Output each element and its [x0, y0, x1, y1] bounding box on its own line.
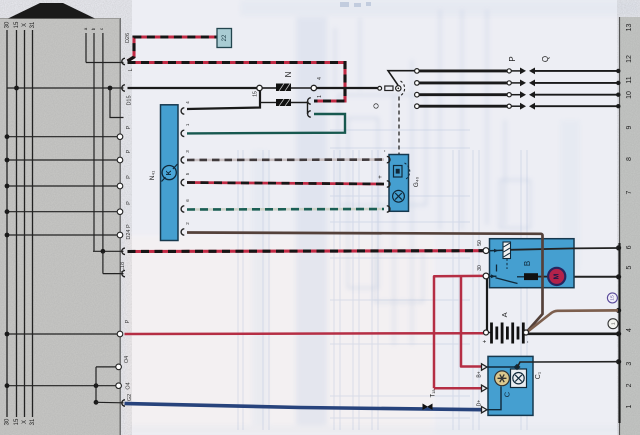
svg-text:2: 2	[626, 383, 633, 387]
svg-text:15: 15	[14, 418, 20, 425]
svg-text:1: 1	[317, 95, 323, 98]
svg-text:D15: D15	[126, 95, 132, 105]
svg-text:6: 6	[626, 245, 633, 249]
svg-text:N: N	[284, 71, 293, 77]
svg-text:M: M	[554, 274, 561, 280]
svg-text:L: L	[128, 68, 134, 71]
svg-text:30: 30	[5, 21, 11, 28]
svg-text:-: -	[526, 341, 532, 343]
svg-text:15: 15	[610, 295, 616, 301]
svg-text:O: O	[371, 103, 380, 109]
svg-text:22: 22	[222, 34, 228, 41]
svg-text:C: C	[502, 391, 511, 397]
svg-text:-: -	[383, 150, 389, 152]
svg-text:4: 4	[317, 77, 323, 80]
svg-text:31: 31	[30, 21, 36, 28]
svg-text:X: X	[22, 420, 28, 424]
svg-text:1: 1	[610, 322, 616, 325]
svg-text:X: X	[22, 23, 28, 27]
svg-text:Q: Q	[541, 56, 550, 62]
svg-text:3: 3	[626, 362, 633, 366]
svg-text:5: 5	[626, 266, 633, 270]
svg-text:P: P	[126, 149, 132, 153]
svg-text:31: 31	[30, 418, 36, 425]
svg-text:+: +	[378, 175, 384, 179]
svg-text:C18: C18	[120, 262, 126, 272]
svg-text:D24 P: D24 P	[126, 224, 132, 240]
svg-text:P: P	[126, 125, 132, 129]
svg-text:G2: G2	[127, 394, 133, 401]
svg-text:O4: O4	[125, 382, 131, 389]
svg-text:D+: D+	[476, 400, 482, 407]
svg-text:T₁ₐ: T₁ₐ	[431, 389, 437, 398]
svg-text:1: 1	[626, 404, 633, 408]
svg-text:A: A	[500, 312, 509, 317]
svg-text:O4: O4	[124, 356, 130, 363]
svg-text:12: 12	[626, 55, 633, 63]
svg-text:7: 7	[626, 190, 633, 194]
svg-text:15: 15	[252, 91, 258, 97]
svg-text:K: K	[166, 170, 173, 175]
svg-text:11: 11	[626, 76, 633, 83]
svg-text:C₁: C₁	[535, 371, 542, 379]
svg-text:15: 15	[14, 21, 20, 28]
svg-text:30: 30	[5, 418, 11, 425]
svg-text:9: 9	[626, 125, 633, 129]
svg-text:30: 30	[477, 265, 483, 271]
svg-text:N₄₁: N₄₁	[149, 170, 156, 180]
svg-text:8: 8	[626, 157, 633, 161]
svg-text:G₄₀: G₄₀	[413, 177, 420, 188]
svg-text:D26: D26	[125, 33, 131, 43]
svg-text:10: 10	[626, 91, 633, 99]
svg-text:B: B	[523, 261, 532, 266]
svg-text:B+: B+	[476, 371, 482, 377]
svg-text:P: P	[125, 319, 131, 323]
svg-text:13: 13	[626, 24, 633, 32]
svg-text:P: P	[126, 201, 132, 205]
svg-text:+: +	[483, 339, 489, 343]
svg-text:50: 50	[477, 240, 483, 246]
svg-text:P: P	[508, 56, 517, 61]
svg-text:P: P	[126, 175, 132, 179]
svg-text:4: 4	[626, 328, 633, 332]
